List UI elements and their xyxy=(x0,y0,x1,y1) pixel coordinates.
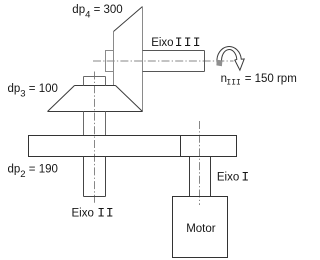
hub of pulley dp3 on shaft II xyxy=(84,77,106,86)
centerline shaft I (vertical dash-dot) xyxy=(199,121,201,205)
centerline shaft III (horizontal dash-dot) xyxy=(93,60,234,62)
svg-text:II: II xyxy=(97,206,114,221)
svg-text:III: III xyxy=(175,35,202,50)
shaft Eixo II upper segment xyxy=(84,112,106,136)
rotation arrow (curved) xyxy=(216,46,244,70)
svg-text:III: III xyxy=(226,79,240,88)
shaft Eixo I xyxy=(190,157,211,197)
svg-text:I: I xyxy=(241,170,249,185)
hub of pulley dp4 on shaft III xyxy=(106,51,114,72)
svg-text:Motor: Motor xyxy=(186,223,216,235)
pulley dp3 (cone on shaft II, trapezoid) xyxy=(48,86,143,112)
svg-text:= 150 rpm: = 150 rpm xyxy=(245,73,297,85)
motor xyxy=(173,197,228,258)
pulley dp4 (cone on shaft III) xyxy=(114,7,143,112)
svg-text:Eixo: Eixo xyxy=(151,37,173,49)
shaft Eixo II lower segment xyxy=(84,157,106,197)
svg-text:Eixo: Eixo xyxy=(72,208,94,220)
pulley dp2 (long rectangle on shafts II and I) xyxy=(29,136,237,157)
shaft Eixo III xyxy=(143,51,205,72)
svg-text:Eixo: Eixo xyxy=(217,172,239,184)
centerline shaft II (vertical dash-dot) xyxy=(94,72,96,204)
divider between pulley dp2 and pulley dp1 xyxy=(180,136,182,157)
